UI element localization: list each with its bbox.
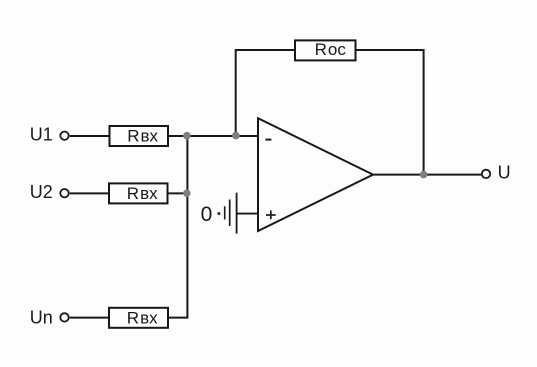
input terminal U2 [60, 189, 68, 197]
node A junction dot [183, 132, 191, 140]
svg-text:Rвх: Rвх [127, 309, 158, 328]
wire U2 terminal to R2 [70, 192, 110, 194]
wire node B to op-amp inverting input [236, 135, 259, 137]
wire op-amp output to terminal U [372, 174, 481, 176]
wire ground to op-amp non-inverting input [237, 213, 258, 215]
output terminal U [482, 170, 490, 178]
node C junction dot [183, 189, 191, 197]
svg-text:Rвх: Rвх [127, 127, 158, 146]
wire feedback: node B up, across to Roc [236, 50, 295, 136]
resistor R1 (Rвх) [110, 126, 169, 146]
ground symbol short bar [224, 206, 226, 219]
op-amp plus sign (non-inverting input) [266, 210, 276, 219]
node B junction dot [232, 132, 240, 140]
input terminal U1 [60, 132, 68, 140]
svg-text:Rвх: Rвх [127, 184, 158, 203]
wire R1 to node A [168, 135, 236, 137]
wire U1 terminal to R1 [70, 135, 110, 137]
wire R3 up to node C (common input bus) [168, 136, 188, 318]
ground symbol tall bar [236, 193, 238, 234]
node D junction dot [420, 171, 428, 179]
wire Un terminal to R3 [70, 317, 110, 319]
op-amp minus sign (inverting input) [265, 139, 271, 141]
wire R2 to node C [167, 192, 188, 194]
svg-text:Un: Un [30, 307, 53, 327]
wire Roc to output node D [356, 50, 424, 175]
op-amp U1 triangle [258, 118, 373, 231]
svg-text:0: 0 [201, 203, 213, 226]
svg-text:Rос: Rос [315, 40, 347, 59]
ground dot separator [218, 212, 221, 215]
svg-text:U1: U1 [30, 124, 53, 144]
input terminal Un [60, 313, 68, 321]
svg-text:U2: U2 [30, 182, 53, 202]
ground symbol middle bar [229, 200, 231, 227]
resistor R2 (Rвх) [109, 183, 168, 203]
resistor R3 (Rвх) [109, 308, 168, 328]
svg-text:U: U [498, 162, 511, 182]
resistor Roc (feedback) [295, 40, 356, 60]
